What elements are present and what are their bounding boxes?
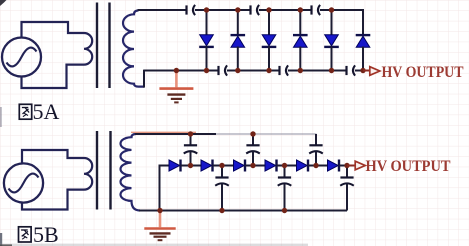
wire diode rail left drop bbox=[160, 166, 170, 211]
wire corner down at x=316 bbox=[315, 134, 317, 145]
wire top rail segment 3 bbox=[259, 9, 312, 11]
wire bottom rail segment 3 bbox=[288, 70, 347, 72]
wire from diode rail down to C4b bbox=[221, 166, 223, 178]
wire C1b to diode rail bbox=[190, 152, 192, 166]
wire C6b to bottom rail bbox=[346, 184, 348, 211]
capacitor C3b bbox=[309, 145, 323, 153]
junction node bottom rail x=269.0 bbox=[266, 68, 271, 73]
wire D4b cathode to node bbox=[277, 165, 285, 167]
wire from top rail down to D3a bbox=[268, 10, 270, 36]
wire C4b to bottom rail bbox=[221, 184, 223, 211]
junction node top rail x=300.3 bbox=[298, 7, 303, 12]
HV output arrow (A) bbox=[370, 67, 380, 76]
ac source V1 (circle with sine) bbox=[2, 38, 41, 77]
diode D3b bbox=[234, 160, 246, 172]
transformer T2 core bbox=[97, 131, 111, 210]
wire top rail dark segment bbox=[135, 133, 216, 135]
ac source V2 (circle with sine) bbox=[4, 163, 43, 202]
wire D3a to bottom rail bbox=[268, 47, 270, 71]
wire C3b to diode rail bbox=[315, 152, 317, 166]
junction node top rail B x=253 bbox=[250, 131, 255, 136]
diode D4a bbox=[293, 35, 308, 47]
junction node diode rail x=190.5 bbox=[188, 163, 193, 168]
wire C5b to bottom rail bbox=[284, 184, 286, 211]
wire node to next diode bbox=[253, 165, 265, 167]
wire from top rail down to D2a bbox=[237, 10, 239, 36]
junction node bottom rail x=237.8 bbox=[235, 68, 240, 73]
wire from top rail down to C1b bbox=[190, 134, 192, 145]
wire top rail segment 1 bbox=[138, 9, 188, 11]
wire node to next diode bbox=[285, 165, 297, 167]
wire D1a to bottom rail bbox=[206, 47, 208, 71]
wire D1b cathode to node bbox=[181, 165, 191, 167]
wire top rail segment 2 bbox=[195, 9, 251, 11]
wire D2a to bottom rail bbox=[237, 47, 239, 71]
diode D4b bbox=[265, 160, 277, 172]
junction node diode rail x=347.0 bbox=[344, 163, 349, 168]
wire from top rail down to C2b bbox=[252, 134, 254, 145]
capacitor C6a bbox=[347, 65, 356, 75]
wire D5a to bottom rail bbox=[331, 47, 333, 71]
wire node to next diode bbox=[222, 165, 234, 167]
diode D5b bbox=[297, 160, 309, 172]
diode D6b bbox=[328, 160, 340, 172]
capacitor C2a bbox=[251, 5, 260, 15]
wire from diode rail down to C5b bbox=[284, 166, 286, 178]
wire bottom rail segment 2 bbox=[227, 70, 280, 72]
label 图5B bbox=[19, 227, 32, 242]
junction node bottom rail x=300.3 bbox=[298, 68, 303, 73]
ground symbol (circuit B) bbox=[144, 213, 175, 241]
junction node bottom rail ground bbox=[157, 208, 162, 213]
wire from top rail down to D4a bbox=[299, 10, 301, 36]
junction node bottom rail x=363.0 bbox=[360, 68, 365, 73]
capacitor C5b bbox=[278, 178, 292, 186]
HV output arrow (B) bbox=[355, 161, 365, 170]
transformer T2 secondary winding bbox=[120, 134, 140, 211]
junction node top rail x=237.8 bbox=[235, 7, 240, 12]
wire highlight (red) on top rail bbox=[131, 131, 196, 133]
diode D1b bbox=[169, 160, 181, 172]
wire top rail thin segment bbox=[216, 133, 317, 135]
source box outline and primary winding L1a bbox=[22, 22, 93, 88]
junction node bottom rail x=331.5 bbox=[329, 68, 334, 73]
svg-text:HV OUTPUT: HV OUTPUT bbox=[382, 63, 464, 81]
capacitor C4a bbox=[219, 65, 228, 75]
svg-text:5A: 5A bbox=[33, 99, 60, 124]
capacitor C1a bbox=[187, 5, 196, 15]
junction node bottom rail x=206.5 bbox=[204, 68, 209, 73]
diode D2a bbox=[231, 35, 246, 47]
junction node top rail x=269.0 bbox=[266, 7, 271, 12]
wire D4a to bottom rail bbox=[299, 47, 301, 71]
capacitor C4b bbox=[215, 178, 229, 186]
wire from top rail down to D1a bbox=[206, 10, 208, 36]
junction node diode rail x=284.5 bbox=[282, 163, 287, 168]
wire D6a to bottom rail bbox=[362, 47, 364, 71]
wire D5b cathode to node bbox=[308, 165, 316, 167]
wire D3b cathode to node bbox=[245, 165, 253, 167]
junction node top rail x=206.5 bbox=[204, 7, 209, 12]
capacitor C3a bbox=[312, 5, 321, 15]
capacitor C6b bbox=[340, 178, 354, 186]
wire bottom rail segment 4 bbox=[355, 70, 364, 72]
wire to HV output arrow (B) bbox=[347, 165, 355, 167]
junction node top rail B x=190.5 bbox=[188, 131, 193, 136]
wire node to next diode bbox=[191, 165, 202, 167]
wire bottom rail segment 1 bbox=[144, 70, 219, 72]
svg-text:5B: 5B bbox=[33, 222, 59, 246]
diode D5a bbox=[324, 35, 339, 47]
ground symbol (circuit A) bbox=[159, 73, 193, 103]
wire node to next diode bbox=[316, 165, 328, 167]
wire D6b cathode to node bbox=[339, 165, 347, 167]
svg-text:HV OUTPUT: HV OUTPUT bbox=[366, 157, 451, 175]
capacitor C5a bbox=[280, 65, 289, 75]
capacitor C1b bbox=[184, 145, 198, 153]
capacitor C2b bbox=[246, 145, 260, 153]
junction node bottom rail x=284.5 bbox=[282, 208, 287, 213]
wire top rail segment 4 with corner down to D6 bbox=[320, 10, 363, 36]
junction node diode rail x=253.0 bbox=[250, 163, 255, 168]
diode D6a bbox=[356, 35, 371, 47]
transformer T1 secondary winding bbox=[123, 11, 144, 87]
diode D1a bbox=[199, 35, 214, 47]
wire D2b cathode to node bbox=[213, 165, 223, 167]
decor edge artifacts bbox=[0, 0, 308, 246]
diode D2b bbox=[201, 160, 213, 172]
label 图5A bbox=[19, 104, 31, 119]
wire secondary bottom to rail bbox=[143, 70, 145, 88]
junction node ground bbox=[174, 68, 179, 73]
source box outline and primary winding L1b bbox=[22, 150, 92, 210]
wire from diode rail down to C6b bbox=[346, 166, 348, 178]
junction node diode rail x=222.0 bbox=[219, 163, 224, 168]
wire to HV output arrow (A) bbox=[363, 70, 370, 72]
transformer T1 core bbox=[97, 3, 110, 89]
junction node bottom rail x=222 bbox=[219, 208, 224, 213]
junction node diode rail x=316.0 bbox=[313, 163, 318, 168]
junction node top rail x=331.5 bbox=[329, 7, 334, 12]
wire bottom rail (B) bbox=[139, 210, 347, 212]
wire from top rail down to D5a bbox=[331, 10, 333, 36]
diode D3a bbox=[262, 35, 277, 47]
wire C2b to diode rail bbox=[252, 152, 254, 166]
